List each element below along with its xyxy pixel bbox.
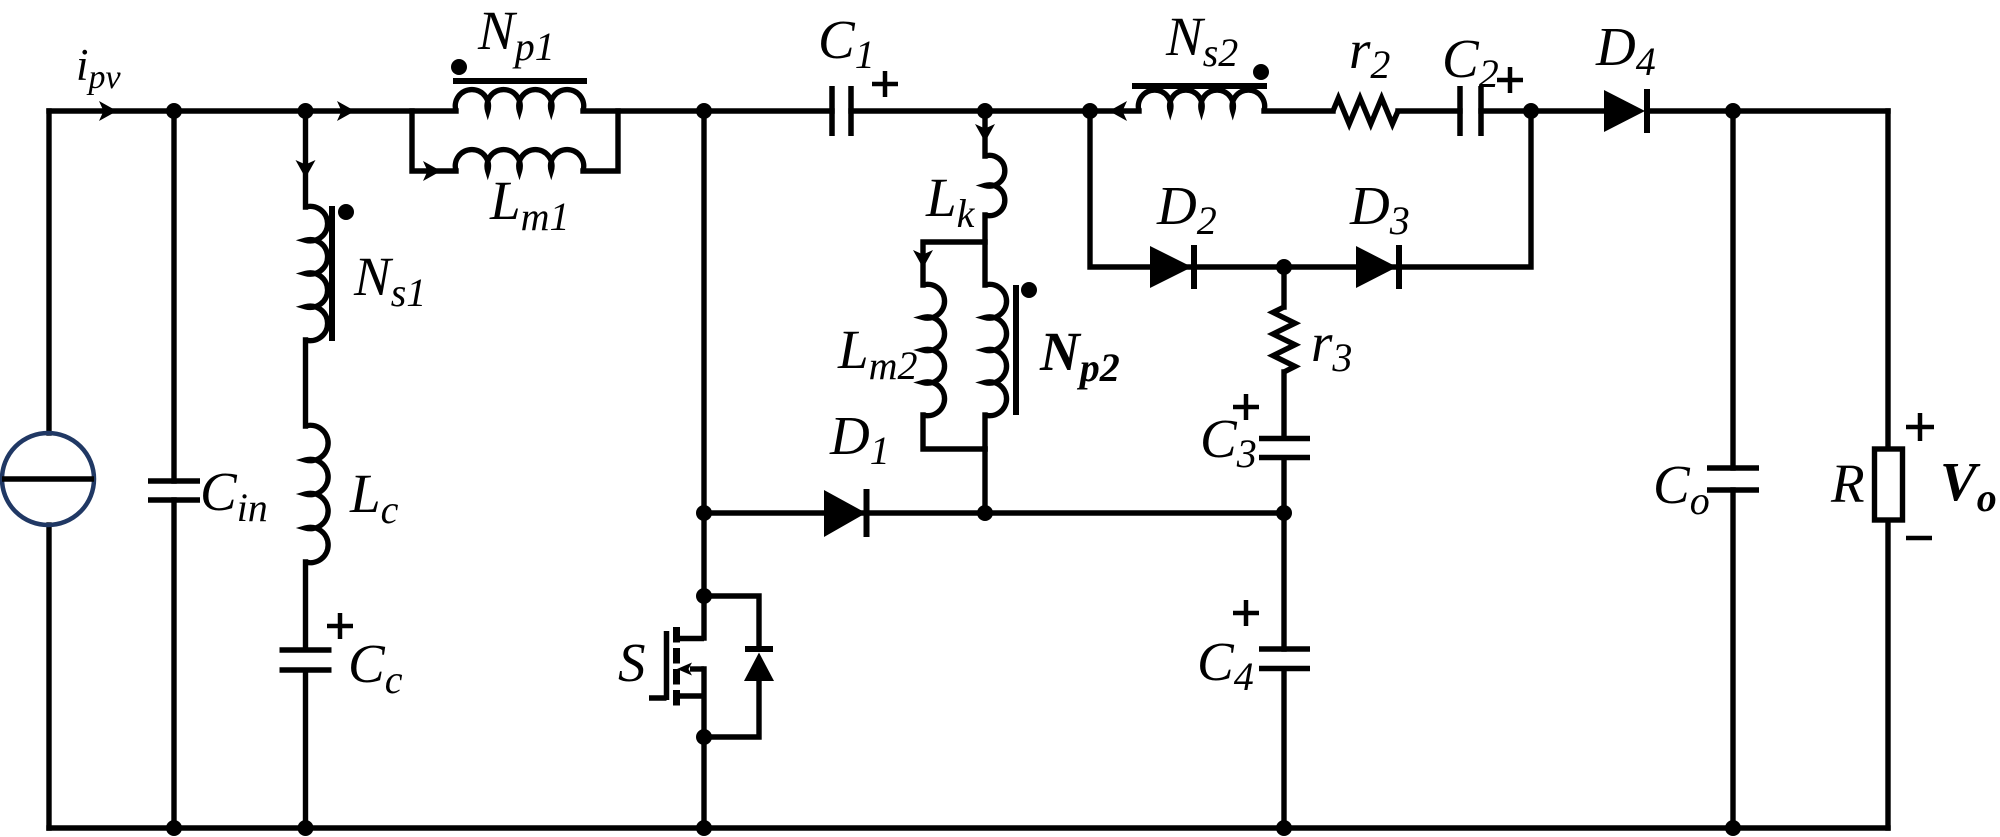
wire right rail lower xyxy=(1885,521,1890,828)
wire Cin branch lower xyxy=(171,500,176,828)
capacitor Co xyxy=(1707,468,1759,490)
Ns2 dot xyxy=(1253,64,1269,80)
svg-text:Lm1: Lm1 xyxy=(489,170,569,239)
winding Ns1 xyxy=(306,206,328,340)
S source connection xyxy=(677,693,705,698)
svg-text:r3: r3 xyxy=(1311,312,1352,380)
wire left rail upper xyxy=(46,111,51,433)
S body diode bar xyxy=(745,646,773,652)
current source i_pv xyxy=(2,433,94,525)
wire D1 line xyxy=(704,510,1284,515)
svg-text:D4: D4 xyxy=(1595,16,1656,84)
S arrow head xyxy=(677,663,692,676)
wire Np2-D1 node xyxy=(982,449,987,513)
Vo minus xyxy=(1906,536,1932,541)
capacitor C1 xyxy=(832,86,851,136)
svg-text:Lc: Lc xyxy=(349,463,399,532)
diode D2 xyxy=(1150,245,1194,289)
diode D3 xyxy=(1356,245,1399,289)
wire Lm1 right leg xyxy=(583,111,618,171)
S channel dashed xyxy=(673,627,680,708)
winding Np1 xyxy=(455,90,583,111)
capacitor Cin xyxy=(148,481,200,500)
C2 plus xyxy=(1497,67,1523,93)
S drain connection xyxy=(677,636,705,641)
inductor Lk xyxy=(985,155,1005,215)
wire top rail xyxy=(49,108,456,113)
diode D4 xyxy=(1604,89,1647,133)
node S source xyxy=(696,729,712,745)
wire Lm2 tee xyxy=(923,242,985,285)
wire r2-C2 xyxy=(1398,108,1460,113)
inductor Lc xyxy=(306,425,329,562)
inductor Lm2 xyxy=(923,284,945,415)
svg-text:Lk: Lk xyxy=(925,167,976,236)
node bottom Cc xyxy=(298,820,314,836)
S gate bar xyxy=(664,631,670,700)
node top switch xyxy=(696,103,712,119)
node top Cin xyxy=(166,103,182,119)
svg-text:C4: C4 xyxy=(1197,631,1254,699)
svg-text:D1: D1 xyxy=(829,405,890,473)
node D2-D3 xyxy=(1276,259,1292,275)
S gate lead xyxy=(649,695,667,700)
svg-text:C2: C2 xyxy=(1442,28,1499,96)
node top C2 out xyxy=(1523,103,1539,119)
capacitor Cc xyxy=(280,650,332,670)
svg-text:Ns1: Ns1 xyxy=(353,246,426,315)
capacitor C4 xyxy=(1259,649,1310,669)
Np1 core bar xyxy=(453,78,587,84)
Cc plus xyxy=(327,613,353,639)
C3 plus xyxy=(1233,394,1259,420)
wire Lm2 bottom xyxy=(923,415,985,449)
Ns1 dot xyxy=(338,204,354,220)
wire C4-bottom xyxy=(1281,670,1286,828)
node S drain xyxy=(696,588,712,604)
wire Np2 bottom xyxy=(982,415,987,449)
C4 plus xyxy=(1233,600,1259,626)
Np1 dot xyxy=(451,59,467,75)
svg-text:D2: D2 xyxy=(1156,175,1217,243)
capacitor C2 xyxy=(1460,86,1481,136)
svg-text:Ns2: Ns2 xyxy=(1165,6,1238,75)
Vo plus xyxy=(1906,413,1934,441)
Ns1 core bar xyxy=(329,206,335,341)
svg-text:Cin: Cin xyxy=(200,461,268,530)
node bottom C4 xyxy=(1276,820,1292,836)
wire D2 loop xyxy=(1090,111,1531,267)
wire left rail lower xyxy=(46,525,51,828)
arrow Lm1 right xyxy=(423,161,441,181)
wire bottom rail xyxy=(49,825,1888,830)
wire Lm1 left leg xyxy=(412,111,456,171)
S body diode branch xyxy=(704,596,759,737)
node top Lk xyxy=(977,103,993,119)
C1 plus xyxy=(872,71,898,97)
resistor r2 xyxy=(1333,98,1398,124)
S arrow line xyxy=(690,666,704,671)
capacitor C3 xyxy=(1259,439,1310,458)
S body diode triangle xyxy=(744,653,774,682)
node bottom Co xyxy=(1725,820,1741,836)
wire top rail mid xyxy=(583,108,832,113)
resistor R xyxy=(1875,449,1903,520)
wire C2-D4 xyxy=(1481,108,1604,113)
wire Lc-Cc xyxy=(303,562,308,649)
wire switch source vertical xyxy=(701,669,706,828)
wire Cin branch upper xyxy=(171,111,176,481)
node top Ns1 xyxy=(298,103,314,119)
svg-text:ipv: ipv xyxy=(76,40,122,96)
svg-text:r2: r2 xyxy=(1349,19,1390,87)
wire Cc-bottom xyxy=(303,671,308,828)
node D1 Np2 xyxy=(977,505,993,521)
node D1 anode xyxy=(696,505,712,521)
wire Ns1 branch upper xyxy=(303,111,308,207)
svg-text:R: R xyxy=(1830,453,1865,514)
svg-text:Np2: Np2 xyxy=(1039,321,1120,390)
node top Co xyxy=(1725,103,1741,119)
arrow Ns2 left xyxy=(1109,101,1127,121)
wire C3-D1 node xyxy=(1281,458,1286,649)
winding Ns2 xyxy=(1138,90,1264,111)
node bottom Cin xyxy=(166,820,182,836)
Ns2 core bar xyxy=(1132,83,1267,89)
Np2 dot xyxy=(1021,282,1037,298)
arrow top rail right xyxy=(337,101,355,121)
svg-text:Lm2: Lm2 xyxy=(837,319,917,388)
arrow i_pv xyxy=(99,101,117,121)
svg-text:Vo: Vo xyxy=(1940,451,1997,520)
svg-text:Np1: Np1 xyxy=(477,0,555,69)
Np2 core bar xyxy=(1013,285,1019,415)
resistor r3 xyxy=(1273,307,1295,372)
svg-text:C1: C1 xyxy=(818,9,875,77)
arrow Lm2 down xyxy=(913,250,933,268)
wire top rail C1-Ns2 xyxy=(851,108,1139,113)
wire r3 top xyxy=(1281,267,1286,307)
wire Lk branch top xyxy=(982,111,987,156)
node top Ns2 xyxy=(1082,103,1098,119)
node bottom S xyxy=(696,820,712,836)
svg-text:D3: D3 xyxy=(1349,175,1410,243)
inductor Lm1 xyxy=(455,150,583,171)
wire Lk-Np2 xyxy=(982,215,987,285)
wire D4-top right corner xyxy=(1647,108,1888,113)
wire right rail upper xyxy=(1885,111,1890,450)
wire r3-C3 xyxy=(1281,372,1286,438)
diode D1 xyxy=(824,489,867,537)
wire Ns2-r2 xyxy=(1264,108,1333,113)
winding Np2 xyxy=(985,284,1007,415)
arrow Ns1 branch down xyxy=(296,160,316,178)
svg-text:Cc: Cc xyxy=(348,633,403,702)
wire Ns1-Lc xyxy=(303,340,308,426)
wire switch node vertical xyxy=(701,111,706,638)
wire Co branch upper xyxy=(1730,111,1735,468)
svg-text:Co: Co xyxy=(1653,454,1710,523)
transistor S mosfet xyxy=(649,627,704,708)
arrow Lk down xyxy=(975,124,995,142)
svg-text:S: S xyxy=(618,632,646,693)
node D1 C3 xyxy=(1276,505,1292,521)
wire Co branch lower xyxy=(1730,490,1735,828)
